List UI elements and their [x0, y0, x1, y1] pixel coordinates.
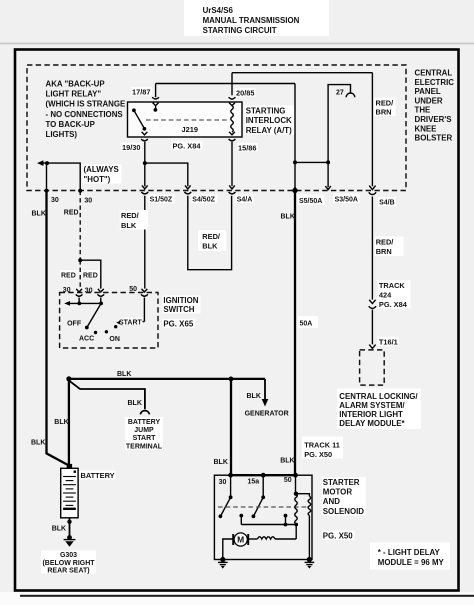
wire: 20/85 riser [231, 73, 233, 96]
svg-text:IGNITION: IGNITION [163, 296, 198, 305]
wire: S1/50Z RED/BLK run to ignition 50 [144, 196, 146, 289]
footnote light delay module [370, 543, 450, 570]
svg-text:S4/50Z: S4/50Z [192, 197, 215, 204]
svg-text:MODULE = 96 MY: MODULE = 96 MY [378, 558, 445, 567]
relay actuator dashed link [146, 119, 227, 121]
wire: 50 to START arrow [122, 321, 145, 323]
svg-text:PG. X84: PG. X84 [379, 300, 408, 309]
svg-text:M: M [237, 535, 244, 545]
wire: 17/87 riser [155, 84, 157, 98]
label: central electric panel [415, 69, 455, 143]
wire: bus down to field [295, 525, 297, 540]
svg-text:STARTING CIRCUIT: STARTING CIRCUIT [203, 26, 277, 35]
relay contact blade [134, 110, 145, 128]
central electric panel dashed box [27, 65, 406, 191]
svg-text:BLK: BLK [52, 526, 66, 533]
connector node S5/50A [292, 187, 299, 195]
hold-in winding to ground [308, 516, 310, 560]
main BLK bus [69, 378, 265, 380]
svg-text:STARTING: STARTING [246, 107, 286, 116]
wire: S5/50A thick BLK run [294, 192, 296, 475]
svg-text:RED/: RED/ [376, 99, 394, 108]
svg-text:ON: ON [109, 336, 120, 343]
svg-text:PANEL: PANEL [415, 87, 441, 96]
scan gray band [0, 43, 474, 45]
ignition terminal 30 b [97, 289, 104, 304]
module dashed box [360, 350, 385, 385]
label: starting interlock relay [245, 106, 295, 135]
svg-text:S4/B: S4/B [379, 200, 395, 207]
node F2 on bus [284, 523, 288, 527]
battery plates [63, 477, 76, 506]
wire: BLK 30 stub [46, 163, 48, 189]
fixed contact F2 dot [284, 514, 288, 518]
bottom scan line [20, 595, 474, 597]
svg-text:GENERATOR: GENERATOR [245, 411, 289, 418]
field winding [257, 537, 275, 539]
svg-text:BLK: BLK [31, 440, 45, 447]
svg-text:(WHICH IS STRANGE: (WHICH IS STRANGE [46, 100, 126, 109]
contact 15a blade dot [252, 514, 256, 518]
pull-in winding [295, 494, 298, 524]
svg-text:AKA "BACK-UP: AKA "BACK-UP [46, 80, 105, 89]
svg-text:20/85: 20/85 [236, 89, 255, 98]
svg-text:INTERLOCK: INTERLOCK [246, 116, 292, 125]
always hot bus arrow [37, 160, 44, 166]
svg-text:BLK: BLK [121, 221, 137, 230]
wire: RED branch to second 30 [80, 260, 101, 288]
svg-text:* - LIGHT DELAY: * - LIGHT DELAY [378, 548, 441, 557]
svg-text:BATTERY: BATTERY [128, 419, 161, 426]
contact output bus [241, 524, 296, 526]
node bus starter [229, 377, 234, 382]
relay coil winding [231, 106, 234, 133]
label TRACK 11 PG. X50 [302, 437, 343, 460]
svg-text:PG. X65: PG. X65 [163, 320, 193, 329]
svg-text:DRIVER'S: DRIVER'S [415, 115, 452, 124]
wire: 19/30 drop to panel edge [144, 142, 146, 187]
ACC position dot [94, 331, 97, 334]
starter top bus [231, 474, 296, 476]
svg-text:BRN: BRN [376, 108, 392, 117]
svg-text:TRACK 11: TRACK 11 [304, 441, 340, 450]
svg-text:19/30: 19/30 [122, 143, 141, 152]
wire: jump start terminal [69, 381, 145, 410]
connector S4/B arrow [369, 186, 375, 190]
label PG. X65 [162, 319, 195, 328]
svg-text:"HOT"): "HOT") [84, 175, 111, 184]
svg-text:BOLSTER: BOLSTER [415, 134, 453, 143]
relay terminal 17/87 [152, 97, 159, 112]
svg-text:RED: RED [64, 210, 79, 217]
wire: S5/50A wire above panel edge [294, 162, 296, 188]
relay terminal 20/85 [229, 97, 236, 105]
label: battery jump start terminal [125, 417, 163, 451]
generator arrowhead [262, 399, 269, 407]
label S4/B [378, 197, 396, 206]
svg-text:424: 424 [379, 291, 392, 300]
label 20/85 [235, 88, 256, 97]
svg-text:BLK: BLK [117, 371, 131, 378]
svg-text:G303: G303 [60, 552, 77, 559]
ground G303 [64, 535, 76, 547]
wire: field link right [275, 538, 296, 540]
wire: S4/50Z - S4/A U loop [188, 196, 232, 270]
svg-text:TRACK: TRACK [379, 281, 406, 290]
svg-text:15/86: 15/86 [238, 144, 257, 153]
label T16/1 [378, 337, 400, 346]
ignition terminal 50 [141, 289, 148, 322]
wire: battery to ground [69, 518, 71, 537]
svg-text:S1/50Z: S1/50Z [150, 197, 173, 204]
wire: field to motor [249, 538, 258, 540]
svg-text:PG. X50: PG. X50 [304, 450, 332, 459]
label G303 [41, 551, 96, 575]
starter ground left [218, 557, 228, 569]
connector cup S4/50Z [184, 192, 191, 194]
contact 15a pivot dot [261, 495, 265, 499]
label BATTERY [80, 471, 116, 480]
label PG. X50 (starter) [322, 531, 355, 541]
connector arrow S1/50Z [142, 185, 148, 189]
svg-text:SOLENOID: SOLENOID [323, 507, 365, 516]
node bus battery [66, 376, 71, 381]
starter box [214, 475, 312, 559]
label (ALWAYS HOT) [83, 165, 122, 185]
svg-text:15a: 15a [248, 479, 260, 486]
svg-text:JUMP: JUMP [134, 427, 154, 434]
svg-text:ACC: ACC [79, 336, 94, 343]
label TRACK 424 PG. X84 [378, 280, 411, 309]
node RED split [78, 258, 82, 262]
svg-text:T16/1: T16/1 [379, 338, 398, 347]
svg-text:17/87: 17/87 [132, 88, 151, 97]
svg-text:S4/A: S4/A [237, 197, 253, 204]
relay terminal 19/30 [141, 132, 148, 141]
label PG. X84 (relay) [172, 141, 203, 150]
svg-text:RED: RED [83, 273, 98, 280]
title text [203, 6, 300, 35]
svg-text:27: 27 [336, 90, 344, 97]
wire: battery feed [68, 379, 70, 464]
svg-text:MANUAL TRANSMISSION: MANUAL TRANSMISSION [203, 16, 300, 25]
relay contact fixed dot [132, 108, 136, 112]
svg-text:OFF: OFF [67, 321, 82, 328]
svg-text:BLK: BLK [32, 211, 46, 218]
solenoid contact 15a: stub [262, 475, 264, 497]
svg-text:KNEE: KNEE [415, 124, 437, 133]
fixed contact F2 stub [285, 516, 287, 525]
node at 27 riser [326, 160, 330, 164]
connector cup S4/A [229, 192, 236, 194]
ignition terminal 30 a [76, 289, 83, 304]
label RED/BRN lower [375, 237, 404, 257]
node coil/bus [294, 523, 298, 527]
node on 19/30 drop [143, 161, 147, 165]
wire: top bus A [156, 83, 295, 85]
node starter 50 [293, 473, 298, 478]
wire: generator stub [264, 379, 266, 400]
svg-text:CENTRAL: CENTRAL [415, 69, 453, 78]
node 30 BLK [44, 189, 48, 193]
svg-text:START: START [133, 435, 157, 442]
wire: top bus B [232, 72, 372, 74]
label 17/87 [131, 87, 152, 96]
svg-text:ELECTRIC: ELECTRIC [415, 78, 455, 87]
svg-text:STARTER: STARTER [323, 478, 360, 487]
fixed contact F1 dot [239, 514, 243, 518]
svg-text:30: 30 [84, 198, 92, 205]
svg-text:DELAY MODULE*: DELAY MODULE* [339, 419, 405, 428]
svg-text:S5/50A: S5/50A [299, 198, 322, 205]
wire: connector to T16/1 [371, 310, 373, 345]
contact 30 blade [221, 497, 231, 516]
wire: S4/B drop [371, 73, 373, 187]
START position dot [114, 325, 117, 328]
label: AKA back-up light relay note [46, 80, 126, 140]
label 50A [298, 316, 318, 328]
svg-text:RED: RED [61, 273, 76, 280]
connector arrow S4/50Z [185, 185, 191, 189]
hold-in winding [308, 496, 311, 515]
battery plus mark [74, 471, 76, 473]
connector S4/B cup [369, 192, 376, 194]
svg-text:BLK: BLK [280, 458, 294, 465]
battery positive terminal [67, 464, 72, 468]
svg-text:LIGHTS): LIGHTS) [46, 130, 78, 139]
svg-text:INTERIOR LIGHT: INTERIOR LIGHT [339, 410, 403, 419]
battery box [61, 468, 78, 518]
label RED/BLK (S1/50Z wire) [120, 210, 148, 230]
ignition bus arrow [64, 301, 70, 306]
ignition rotor arm [87, 303, 101, 327]
fixed contact F1 stub [240, 516, 242, 525]
connector arrow S3/50A [325, 186, 331, 190]
wire: 15/86 drop to panel edge S4/A [231, 142, 233, 186]
label S4/50Z [191, 194, 217, 203]
START contact arrowhead [116, 320, 122, 326]
svg-text:START: START [119, 320, 143, 327]
relay terminal 15/86 [229, 132, 236, 141]
label: starter motor and solenoid [322, 477, 366, 516]
node below battery [67, 520, 71, 524]
label 15/86 [237, 143, 258, 152]
white strip below frame [0, 592, 474, 605]
terminal 27 socket [346, 93, 355, 97]
svg-text:PG. X50: PG. X50 [323, 532, 353, 541]
inline connector TRACK424 cup [369, 306, 376, 308]
ON position dot [105, 330, 108, 333]
svg-text:50: 50 [129, 286, 137, 293]
wire: RED dashed to first 30 [79, 260, 81, 288]
wire: always hot bus [43, 163, 81, 189]
svg-text:UNDER: UNDER [415, 96, 443, 105]
svg-text:BLK: BLK [54, 419, 68, 426]
svg-text:REAR SEAT): REAR SEAT) [47, 568, 89, 575]
node on hot bus [45, 161, 49, 165]
svg-text:BATTERY: BATTERY [81, 471, 115, 480]
node solenoid top [294, 492, 298, 496]
wire: node link [295, 161, 328, 163]
label S3/50A [333, 193, 360, 204]
contact 30 pivot dot [229, 495, 233, 499]
node 30 RED [78, 189, 82, 193]
node bus 30b [99, 302, 103, 306]
solenoid contact 30: stub [230, 475, 232, 497]
wire: 50 into solenoid [295, 475, 297, 494]
svg-text:RELAY (A/T): RELAY (A/T) [246, 126, 292, 135]
wire: motor to ground [223, 539, 233, 560]
svg-text:AND: AND [323, 497, 340, 506]
label 19/30 [121, 143, 142, 152]
node at S5 riser [293, 160, 297, 164]
wire: riser to terminal 27 [328, 85, 350, 163]
svg-text:PG. X84: PG. X84 [173, 142, 202, 151]
label S1/50Z [149, 194, 175, 203]
ignition switch dashed box [60, 293, 158, 349]
label S4/A [236, 194, 254, 203]
connector arrow S4/A [229, 185, 235, 189]
svg-text:BLK: BLK [281, 214, 295, 221]
svg-text:SWITCH: SWITCH [163, 305, 194, 314]
wire: S3/50A stub down to panel edge [327, 162, 329, 187]
svg-text:TERMINAL: TERMINAL [126, 444, 163, 451]
svg-text:LIGHT RELAY": LIGHT RELAY" [46, 90, 102, 99]
wire: S4/B run to module [371, 197, 373, 300]
svg-text:S3/50A: S3/50A [335, 197, 358, 204]
ignition bus [69, 302, 101, 304]
module pin T16/1 arrow [369, 345, 375, 349]
label: central locking module [337, 389, 421, 430]
node starter 30 [228, 473, 233, 478]
svg-text:30: 30 [63, 287, 71, 294]
svg-text:RED/: RED/ [376, 238, 394, 247]
wire: bus A drop to node [294, 84, 296, 163]
starter ground right [305, 557, 315, 569]
svg-text:30: 30 [219, 479, 227, 486]
label RED/BLK (U loop) [198, 230, 226, 251]
label IGNITION SWITCH [162, 296, 200, 315]
svg-text:RED/: RED/ [121, 211, 139, 220]
relay J219 box [128, 102, 243, 137]
svg-text:TO BACK-UP: TO BACK-UP [46, 120, 95, 129]
connector cup S1/50Z [141, 192, 148, 194]
node bus 30a [77, 302, 81, 306]
svg-text:THE: THE [415, 106, 431, 115]
wire: BLK battery cable (thick) [47, 191, 69, 466]
contact 15a blade [254, 497, 264, 516]
svg-text:CENTRAL LOCKING/: CENTRAL LOCKING/ [339, 392, 418, 401]
label S5/50A [298, 195, 325, 206]
rotor end dot [85, 326, 89, 330]
battery bottom plate thick [63, 508, 76, 510]
label START [119, 318, 143, 327]
inline connector TRACK424 arrow [369, 300, 375, 304]
svg-text:RED/: RED/ [202, 232, 220, 241]
label RED (left) [60, 270, 79, 279]
svg-text:30: 30 [51, 197, 59, 204]
svg-text:- NO CONNECTIONS: - NO CONNECTIONS [46, 110, 123, 119]
svg-text:30: 30 [85, 288, 93, 295]
svg-text:UrS4/S6: UrS4/S6 [203, 6, 234, 15]
svg-text:BLK: BLK [202, 242, 218, 251]
svg-text:BLK: BLK [247, 393, 261, 400]
wire: link to S4/50Z [145, 163, 188, 186]
hold-in winding branch [296, 494, 309, 497]
node starter 15a [261, 473, 266, 478]
svg-text:BRN: BRN [376, 247, 392, 256]
svg-text:(BELOW RIGHT: (BELOW RIGHT [42, 560, 95, 567]
svg-text:50: 50 [284, 477, 292, 484]
wire: RED dashed drop [79, 191, 81, 261]
title white panel [184, 0, 329, 36]
svg-text:MOTOR: MOTOR [323, 488, 353, 497]
wire: bus to starter 30 [230, 379, 232, 475]
svg-text:BLK: BLK [214, 459, 228, 466]
svg-text:J219: J219 [182, 125, 198, 134]
starter actuator dashed link [218, 506, 308, 508]
svg-text:(ALWAYS: (ALWAYS [84, 165, 119, 174]
svg-text:BLK: BLK [128, 400, 142, 407]
relay blade end dot [143, 127, 147, 131]
contact 30 blade dot [219, 514, 223, 518]
motor M [233, 533, 248, 546]
svg-text:50A: 50A [300, 321, 313, 328]
svg-text:ALARM SYSTEM/: ALARM SYSTEM/ [339, 401, 405, 410]
label RED/BRN upper [375, 98, 396, 117]
jump start terminal post [140, 411, 149, 415]
